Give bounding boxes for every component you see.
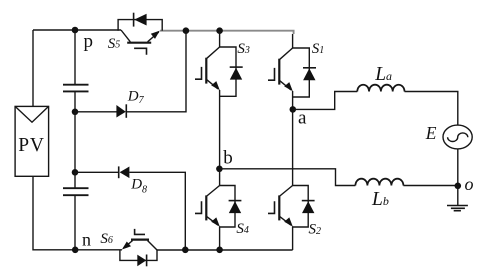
wire top bus gray segment S5 collector to S1 corner (160, 31, 294, 34)
node b junction dot (216, 166, 223, 173)
diode D7 with wire from midpoint up to top bus (75, 31, 186, 118)
node junction dot top bus / S3 collector (216, 27, 223, 34)
wire node a to inductor La (293, 92, 358, 110)
diode of S1 (anti-parallel, pointing up) (293, 48, 316, 97)
wire bottom bus S6 to S2 emitter (157, 249, 293, 251)
svg-text:b: b (223, 148, 233, 169)
wire p down to capacitor C1 (74, 30, 76, 85)
node midpoint dot 2 (72, 169, 79, 176)
node p junction dot (72, 27, 79, 34)
wire top bus left: from left rail corner to S5 emitter (33, 29, 121, 31)
diode of S5 (anti-parallel, pointing left) (118, 13, 162, 31)
wire left rail down to PV top (32, 30, 34, 106)
transistor S4 (vertical IGBT leg) (195, 169, 220, 250)
transistor S5 body (horizontal IGBT) (121, 30, 160, 55)
svg-text:a: a (298, 107, 307, 128)
wire midpoint rail between dots (74, 112, 76, 173)
wire PV bottom to bottom bus (33, 176, 75, 250)
svg-text:o: o (465, 174, 474, 194)
wire La to E source (405, 92, 458, 126)
capacitor C1 (upper dc-link cap) (63, 85, 89, 112)
svg-text:PV: PV (18, 135, 45, 156)
wire node b to inductor Lb (219, 169, 355, 186)
transistor S1 (vertical IGBT leg) (268, 34, 293, 109)
diode of S3 (anti-parallel, pointing up) (220, 47, 243, 96)
PV module box (15, 106, 49, 176)
node bottom bus dot / S4 emitter (216, 247, 223, 254)
node midpoint dot 1 (72, 109, 79, 116)
ground symbol (447, 186, 468, 211)
wire bottom bus n to S6 (75, 249, 122, 251)
wire Lb to node o (403, 185, 457, 187)
transistor S2 (vertical IGBT leg) (268, 109, 293, 250)
svg-text:p: p (84, 31, 94, 52)
svg-text:E: E (425, 123, 437, 143)
ac source E (circle with sine) (443, 125, 472, 149)
diode of S6 (anti-parallel, pointing right) (120, 250, 157, 266)
inductor Lb (4 humps) (355, 179, 403, 186)
wire E source down to node o (457, 149, 459, 186)
svg-text:n: n (82, 230, 91, 250)
node bottom bus dot / D8 rail (182, 247, 189, 254)
diode of S4 (anti-parallel, pointing up) (220, 186, 242, 228)
transistor S3 (vertical IGBT leg) (195, 31, 220, 169)
diode of S2 (anti-parallel, pointing up) (293, 186, 315, 228)
node o junction dot (455, 183, 462, 190)
node n junction dot (72, 247, 79, 254)
capacitor C2 (lower dc-link cap) (63, 172, 89, 250)
node a junction dot (290, 106, 297, 113)
inductor La (4 humps) (357, 85, 404, 92)
diode D8 with wire from bottom rail to midpoint (75, 166, 185, 249)
node junction dot top bus / D7 rail (183, 27, 190, 34)
transistor S6 body (horizontal IGBT) (122, 229, 157, 250)
